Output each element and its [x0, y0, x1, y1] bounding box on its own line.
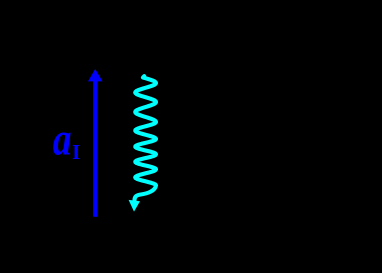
svg-text:a: a	[53, 114, 72, 166]
cyan photon squiggle	[134, 76, 156, 202]
svg-text:I: I	[72, 140, 80, 164]
label a_I	[53, 114, 81, 166]
blue arrowhead	[88, 69, 103, 81]
cyan squiggle arrowhead	[129, 200, 140, 212]
blue acceleration arrow shaft	[93, 81, 98, 217]
